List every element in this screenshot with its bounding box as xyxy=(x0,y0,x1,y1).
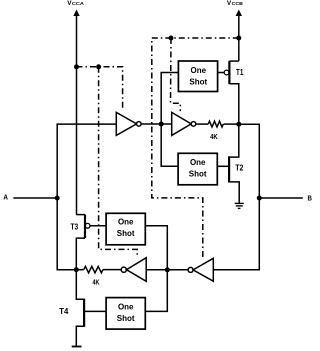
svg-text:B: B xyxy=(308,193,313,202)
svg-text:CCA: CCA xyxy=(72,1,85,7)
svg-text:One: One xyxy=(190,158,206,167)
node one-shot tap dot (bottom) xyxy=(165,267,170,272)
svg-text:T1: T1 xyxy=(236,68,244,77)
svg-text:T2: T2 xyxy=(235,164,244,173)
node T1/T2 drain junction dot xyxy=(236,122,241,127)
svg-text:T4: T4 xyxy=(59,307,69,316)
wire U4 to U3 xyxy=(146,269,188,271)
svg-text:One: One xyxy=(118,302,134,311)
wire inverter1 output to inverter2 input xyxy=(141,123,172,125)
wire tap up to One Shot 1 input xyxy=(161,73,178,125)
transistor T4 (NMOS pull-down to GND) xyxy=(83,299,85,327)
supply VCCB arrow xyxy=(236,10,242,17)
supply VCCB label xyxy=(227,0,244,7)
wire resistor to node xyxy=(224,123,239,125)
wire VCCB vertical to T1 source xyxy=(238,15,240,61)
wire dash-dot VCCB to U3 enable xyxy=(152,38,239,259)
wire VCCA vertical xyxy=(76,15,78,215)
dash-dot sense lines xyxy=(77,38,239,259)
wire OS4 output to T4 gate xyxy=(84,310,106,312)
wire OS3 output to T3 gate xyxy=(90,225,106,227)
wire tap down to One Shot 2 input xyxy=(161,124,178,166)
svg-text:Shot: Shot xyxy=(189,169,207,178)
ground (T2) xyxy=(235,203,244,208)
one-shot OS2 box xyxy=(178,153,217,185)
svg-text:Shot: Shot xyxy=(189,78,207,87)
wire OS1 output to T1 gate xyxy=(218,72,225,74)
one-shot OS4 box xyxy=(106,298,145,330)
op-amp U2 inverter (B-side driver) xyxy=(172,112,192,135)
transistor T1 (PMOS pull-up to VCCB) xyxy=(228,61,230,84)
svg-text:One: One xyxy=(191,66,207,75)
wire B stub xyxy=(259,197,303,199)
op-amp U3 inverter (B-side input buffer, points left) xyxy=(188,267,193,272)
svg-text:4K: 4K xyxy=(210,134,218,141)
wire tap up to One Shot 3 input xyxy=(145,226,167,270)
supply VCCA label xyxy=(67,0,84,7)
wire bottom row: node to resistor xyxy=(76,269,84,271)
transistor T3 (PMOS pull-up to VCCA) xyxy=(84,215,86,239)
node A-side junction dot xyxy=(74,267,79,272)
wire dash-dot VCCA to U1 enable xyxy=(77,67,123,109)
svg-text:CCB: CCB xyxy=(232,1,244,7)
transistor T1 gate bubble xyxy=(224,70,229,75)
op-amp U4 inverter (A-side driver, points left) xyxy=(121,267,126,272)
supply VCCA arrow xyxy=(73,10,79,17)
svg-text:Shot: Shot xyxy=(117,314,135,323)
wire dash-dot VCCB branch to U2 enable xyxy=(171,38,181,111)
node dash-dot junction dots xyxy=(74,64,79,69)
ground (T4) xyxy=(72,346,82,348)
resistor R1 4K (top) xyxy=(208,121,223,127)
one-shot OS3 box xyxy=(106,213,145,245)
wire A vertical xyxy=(57,124,116,270)
wire U2 bubble to resistor xyxy=(196,123,208,125)
transistor T2 (NMOS pull-down to GND) xyxy=(228,156,230,182)
svg-text:One: One xyxy=(118,217,134,226)
wire dash-dot VCCA branch to U4 enable xyxy=(99,67,138,258)
transistor T3 gate bubble xyxy=(85,223,90,228)
node one-shot tap dot (top) xyxy=(159,122,164,127)
svg-text:A: A xyxy=(3,193,8,202)
wire OS2 output to T2 gate xyxy=(217,165,229,167)
node B junction dot xyxy=(257,196,262,201)
wire tap down to One Shot 4 input xyxy=(145,270,167,312)
wire B vertical xyxy=(213,124,259,270)
op-amp U1 inverter (A-side input buffer) xyxy=(116,112,136,135)
wire resistor to U4 bubble xyxy=(103,269,121,271)
resistor R2 4K (bottom) xyxy=(84,266,103,272)
svg-text:T3: T3 xyxy=(71,222,79,231)
node A junction dot xyxy=(55,196,60,201)
wire A stub xyxy=(13,197,57,199)
one-shot OS1 box xyxy=(178,61,217,92)
svg-text:4K: 4K xyxy=(93,279,100,286)
svg-text:Shot: Shot xyxy=(117,229,135,238)
